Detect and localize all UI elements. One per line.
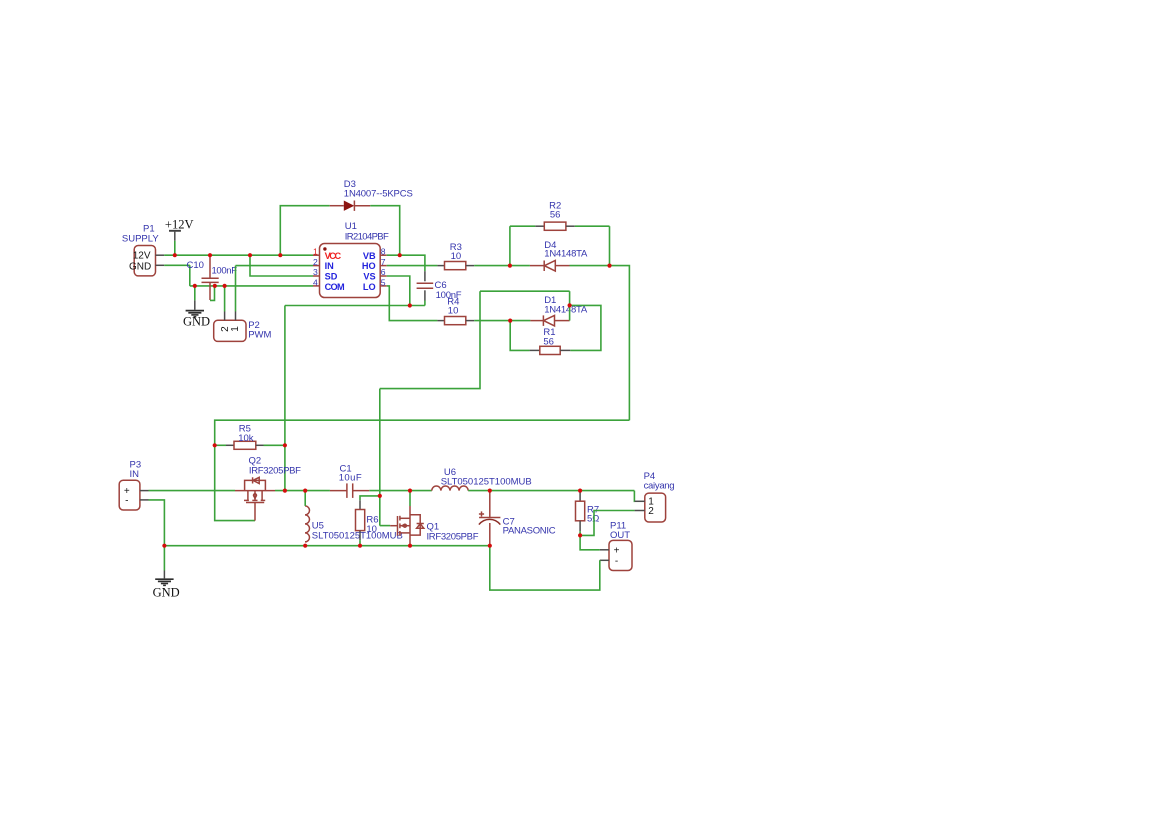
wire P3 minus [149, 500, 165, 546]
wire GND stub [194, 286, 196, 301]
wire gate drive run [215, 420, 630, 445]
wire gate net top [480, 290, 570, 292]
wire SD [250, 255, 313, 276]
connector P2 PWM [214, 312, 272, 342]
wire R3 to D4 [474, 265, 530, 267]
wire VS [387, 276, 410, 306]
wire R5 right [264, 444, 285, 446]
resistor R1 56 [530, 327, 571, 355]
connector P1 SUPPLY [122, 224, 164, 276]
wire R2 row right [575, 225, 610, 227]
wire P11 minus loop [490, 546, 600, 590]
svg-text:VCC: VCC [325, 251, 342, 261]
wire left column [284, 306, 286, 491]
capacitor C7 PANASONIC [479, 491, 556, 546]
svg-text:HO: HO [362, 261, 376, 271]
U1 pin 8 VB [363, 246, 386, 260]
connector P11 OUT [600, 521, 632, 571]
wire R5 left [215, 444, 226, 446]
svg-text:COM: COM [325, 282, 345, 292]
junction [193, 284, 197, 288]
U1 pin 5 LO [363, 278, 386, 293]
svg-text:SUPPLY: SUPPLY [122, 234, 159, 245]
connector P3 IN [119, 460, 148, 511]
svg-text:7: 7 [381, 257, 386, 267]
U1 pin 2 IN [313, 257, 334, 271]
svg-text:56: 56 [543, 337, 554, 348]
wire VCC rail [164, 254, 313, 256]
junction [283, 489, 287, 493]
wire gate net left column [380, 291, 480, 388]
wire HO net right [610, 266, 630, 421]
svg-text:4: 4 [313, 278, 318, 288]
wire R2 left column [509, 226, 511, 265]
wire P2 pin2 drop [224, 286, 226, 312]
svg-text:SLT050125T100MUB: SLT050125T100MUB [312, 530, 403, 541]
wire R2 row left [510, 225, 535, 227]
svg-text:SLT050125T100MUB: SLT050125T100MUB [441, 476, 532, 487]
wire P3 plus [149, 490, 236, 492]
junction [278, 253, 282, 257]
ground [183, 300, 210, 328]
svg-text:1: 1 [313, 246, 318, 256]
wire COM rail [190, 285, 313, 287]
wire VB [387, 255, 425, 271]
svg-text:PWM: PWM [248, 330, 271, 341]
wire VS rail [285, 305, 425, 307]
IC U1 IR2104PBF gate driver [313, 221, 389, 298]
wire IN [236, 265, 314, 267]
wire R4 to D1 [474, 320, 530, 322]
junction [578, 533, 582, 537]
power +12V [165, 218, 194, 241]
inductor U5 SLT050125T100MUB [305, 506, 403, 542]
svg-text:3: 3 [313, 267, 318, 277]
svg-text:C10: C10 [187, 260, 204, 271]
svg-text:12V: 12V [133, 251, 151, 262]
wire Q1 gate link [380, 525, 390, 527]
svg-text:10k: 10k [238, 433, 254, 444]
junction [213, 284, 217, 288]
svg-text:+: + [614, 545, 620, 556]
capacitor C6 100nF [417, 271, 462, 301]
wire Q1 top [409, 491, 411, 506]
svg-text:IR2104PBF: IR2104PBF [345, 231, 389, 242]
wire D3 right [370, 206, 399, 256]
svg-text:SD: SD [325, 272, 338, 282]
junction [508, 264, 512, 268]
wire to P4 pin2 [580, 511, 635, 536]
wire main line Q2 right [275, 490, 330, 492]
junction [488, 544, 492, 548]
wire R1 left link [510, 321, 529, 351]
wire P1 GND pin [164, 264, 190, 266]
wire main line C1 right [369, 490, 432, 492]
transistor Q2 IRF3205PBF [235, 455, 301, 520]
junction [398, 253, 402, 257]
svg-text:-: - [615, 556, 618, 567]
resistor R3 10 [437, 242, 474, 270]
wire +12V drop [174, 241, 176, 255]
svg-text:caiyang: caiyang [644, 480, 675, 491]
wire HO to R3 [387, 265, 438, 267]
resistor R2 56 [535, 200, 575, 230]
junction [508, 319, 512, 323]
svg-text:IN: IN [130, 469, 140, 480]
svg-text:2: 2 [313, 257, 318, 267]
svg-text:-: - [125, 495, 128, 506]
diode D4 1N4148TA [530, 240, 588, 271]
svg-text:OUT: OUT [610, 530, 630, 541]
svg-text:PANASONIC: PANASONIC [503, 526, 556, 537]
capacitor C10 100nF [187, 256, 238, 300]
junction [248, 253, 252, 257]
svg-text:IN: IN [325, 261, 335, 271]
svg-text:GND: GND [153, 586, 180, 600]
wire D3 left [280, 206, 329, 256]
wire [189, 265, 191, 286]
wire R7 bottom [579, 531, 581, 535]
junction [358, 544, 362, 548]
junction [408, 489, 412, 493]
U1 pin 3 SD [313, 267, 338, 281]
svg-text:1N4148TA: 1N4148TA [544, 248, 588, 259]
svg-text:IRF3205PBF: IRF3205PBF [249, 465, 301, 476]
wire main line to P4 pin1 [633, 491, 635, 502]
junction [488, 489, 492, 493]
svg-text:1: 1 [230, 326, 241, 332]
svg-text:VS: VS [363, 272, 375, 282]
junction [283, 443, 287, 447]
svg-text:100nF: 100nF [212, 266, 238, 277]
inductor U6 SLT050125T100MUB [432, 467, 532, 491]
svg-text:GND: GND [129, 261, 151, 272]
junction [303, 489, 307, 493]
svg-text:LO: LO [363, 282, 376, 292]
svg-text:8: 8 [381, 246, 386, 256]
svg-text:IRF3205PBF: IRF3205PBF [427, 532, 479, 543]
wire gate net drop [379, 389, 381, 526]
junction [408, 303, 412, 307]
svg-text:5: 5 [381, 278, 386, 288]
svg-text:VB: VB [363, 251, 376, 261]
resistor R7 5ohm [576, 491, 600, 532]
svg-text:1N4148TA: 1N4148TA [544, 305, 588, 316]
resistor R5 10k [226, 424, 264, 450]
junction [607, 264, 611, 268]
resistor R4 10 [437, 296, 474, 324]
diode D3 1N4007--5KPCS [330, 179, 413, 211]
junction [303, 544, 307, 548]
svg-text:2: 2 [648, 506, 654, 517]
junction [378, 494, 382, 498]
U1 pin 6 VS [363, 267, 385, 281]
wire main line U6 right [468, 490, 634, 492]
wire LO [387, 286, 438, 321]
svg-text:10: 10 [366, 524, 377, 535]
junction [173, 253, 177, 257]
junction [578, 489, 582, 493]
wire to P11 plus [580, 535, 600, 549]
svg-text:10uF: 10uF [339, 473, 362, 484]
junction [162, 544, 166, 548]
wire P2 pin1 drop [235, 266, 237, 312]
svg-text:+12V: +12V [165, 218, 194, 232]
junction [208, 253, 212, 257]
ground [153, 571, 180, 600]
wire R1 right link [570, 305, 601, 350]
svg-text:10: 10 [448, 305, 459, 316]
wire D1 anode column [569, 291, 571, 320]
svg-text:56: 56 [550, 209, 561, 220]
wire U5 top [304, 491, 306, 506]
junction [568, 303, 572, 307]
wire D4 to junction [570, 265, 610, 267]
svg-text:6: 6 [381, 267, 386, 277]
capacitor C1 10uF [330, 463, 369, 498]
svg-text:1N4007--5KPCS: 1N4007--5KPCS [344, 189, 413, 200]
wire R6 bottom [359, 540, 361, 546]
wire C10 hook [210, 286, 215, 301]
U1 pin 4 COM [313, 278, 345, 293]
svg-text:GND: GND [183, 315, 210, 329]
wire GND2 stub [163, 546, 165, 571]
wire Q2 gate loop [215, 445, 255, 520]
svg-text:10: 10 [451, 251, 462, 262]
transistor Q1 IRF3205PBF [390, 506, 478, 546]
junction [408, 544, 412, 548]
wire C6 bottom [424, 301, 426, 306]
svg-text:5Ω: 5Ω [587, 514, 599, 525]
U1 pin 1 VCC [313, 246, 341, 260]
junction [223, 284, 227, 288]
resistor R6 10 [356, 500, 379, 540]
diode D1 1N4148TA [530, 295, 587, 326]
wire bottom rail [164, 545, 489, 547]
connector P4 caiyang [635, 471, 675, 522]
wire R2 right column [609, 226, 611, 265]
U1 pin 7 HO [362, 257, 386, 271]
junction [213, 443, 217, 447]
wire R6 tap [360, 496, 380, 500]
